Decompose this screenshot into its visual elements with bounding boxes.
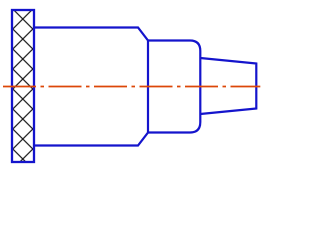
flange hatch fill: [12, 10, 34, 162]
middle step section: [148, 41, 200, 133]
flange outline (hatched plate): [12, 10, 34, 162]
centerline (red dash-dot): [3, 86, 260, 88]
tip (tapered nose): [200, 58, 256, 114]
main body: [34, 28, 148, 146]
